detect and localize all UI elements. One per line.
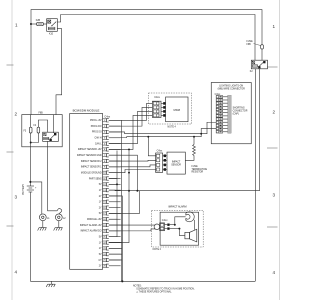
wire module pin 25 stub (109, 259, 123, 261)
wire module pin 13 stub to K2 rail (109, 189, 129, 192)
module pin 3 PROG DI (92, 130, 109, 134)
module pin 15 1Y (99, 200, 109, 204)
wire lamp L1 to ground (42, 221, 44, 228)
wire resistor to sensor S2 (185, 157, 194, 161)
fuse F4 (34, 125, 40, 133)
module pin 11 1Y (89, 177, 109, 181)
wire module pin 1 to sensor S1 pin 1 (109, 103, 153, 120)
left zone tick 1-2 (7, 64, 14, 66)
impact sensor S1 enclosure (148, 93, 191, 124)
ground lamp L2 (54, 228, 63, 231)
right zone tick 2-3 (267, 147, 278, 149)
wire fuse F6B to relay K2 (261, 49, 263, 60)
node CAN bus junction (200, 133, 202, 135)
svg-text:PART SENS: PART SENS (89, 177, 102, 180)
wire alarm pin 2 internal (170, 228, 180, 230)
module pin 20 IMPACT ALARM +5V (81, 229, 109, 233)
svg-text:2: 2 (273, 110, 276, 115)
module pin 9 IMPACT SENSOR 1 (81, 165, 109, 169)
wire module pin 6 to sensor S1 pin 4 (109, 115, 153, 149)
module pin 21 IMPACT ALARM DO (99, 235, 109, 239)
shorting connector pin 7 (216, 115, 227, 118)
connector sensor S2 pin 4 (156, 168, 167, 171)
shorting connector cap label (233, 107, 248, 115)
right margin ruler line (279, 0, 281, 300)
wire module pin 20 to alarm pin 2 (109, 229, 156, 231)
svg-text:CONNECTOR: CONNECTOR (233, 110, 248, 112)
connector sensor S1 pin 2 (153, 106, 165, 109)
shorting connector pin 11 (216, 127, 227, 130)
ground chassis G1 (46, 281, 55, 287)
sensor S1 body MS08 (166, 97, 188, 122)
shorting connector enclosure (211, 83, 251, 144)
wire relay K3 output to lamp 2 (48, 141, 58, 210)
module pin 19 MODULE +5V (80, 223, 109, 227)
wire relay K2 output to module rail (129, 69, 260, 191)
svg-text:2Y: 2Y (99, 266, 102, 268)
horn H1 (186, 212, 194, 222)
shorting connector pin 9 (216, 121, 227, 124)
shorting connector pin numbers (219, 97, 221, 132)
wire lamp L2 to ground (58, 221, 60, 228)
svg-text:1Y: 1Y (99, 202, 102, 204)
shorting connector pin 6 (216, 111, 227, 114)
module pin 8 IMPACT SENSOR 2 (81, 159, 109, 163)
connector sensor S2 shell (156, 153, 163, 172)
connector sensor S1 shell (152, 101, 161, 117)
svg-text:CAN L: CAN L (95, 142, 102, 145)
wire resistor tap (193, 137, 195, 145)
svg-text:C4xx: C4xx (157, 150, 163, 153)
wire module pin 9 to sensor S2 pin 3 (109, 165, 156, 167)
impact alarm inner box (160, 212, 199, 245)
wire sensor return bus A (109, 149, 129, 242)
svg-text:F6B: F6B (39, 113, 44, 115)
module pin 14 PART SENS (99, 194, 109, 198)
module pin 22 5V (99, 241, 109, 245)
fuse block F6B box (22, 113, 62, 147)
svg-text:(WB) WIRE CONNECTOR: (WB) WIRE CONNECTOR (218, 89, 246, 91)
svg-text:1Y: 1Y (99, 248, 102, 250)
module pin 12 MODULE GROUND (99, 183, 109, 187)
svg-text:5V: 5V (99, 254, 102, 256)
resistor R1 label (192, 166, 208, 174)
connector sensor S2 pin 1 (156, 154, 167, 157)
svg-text:RESISTOR: RESISTOR (192, 172, 204, 174)
speaker SP1 (185, 229, 197, 242)
connector alarm plug (154, 223, 170, 231)
module pin 6 IMPACT SENSOR +5V (78, 148, 109, 152)
svg-text:3: 3 (273, 193, 276, 198)
svg-text:(CAP): (CAP) (233, 112, 239, 115)
relay K3 in fuse block (43, 132, 59, 141)
relay K2 (250, 60, 268, 73)
svg-text:PROG DI: PROG DI (92, 132, 102, 134)
module pin 13 5V (99, 188, 109, 192)
wire alarm junction to horn (175, 217, 186, 225)
fuse F6B (261, 45, 264, 49)
svg-text:F2B: F2B (36, 20, 41, 22)
wire module pin 11 to alarm enclosure (109, 151, 117, 237)
left zone tick 3-4 (7, 225, 14, 227)
wire horn to speaker (194, 220, 196, 230)
node battery feed junction (30, 23, 32, 25)
left margin ruler line (11, 0, 13, 300)
node alarm junction 1 (174, 224, 176, 226)
module pin 5 CAN L (95, 142, 109, 146)
wire battery feed through fuse F3 (30, 115, 32, 128)
connector sensor S1 pin 1 (153, 102, 165, 105)
svg-text:IMPACT SENSOR +5V: IMPACT SENSOR +5V (78, 148, 102, 151)
node battery junction (29, 181, 31, 183)
relay K10 (47, 19, 58, 36)
shorting connector pin 8 (216, 118, 227, 121)
svg-text:C4xx: C4xx (154, 96, 160, 99)
svg-text:TERMINATING: TERMINATING (192, 168, 208, 171)
wire module pin 24 stub (109, 253, 123, 255)
wire module pin 17 riser (109, 191, 140, 214)
wire module pin 2 to sensor S1 pin 2 (109, 107, 153, 126)
wire module pin 18 stub to bus A (109, 218, 117, 220)
wire alarm pin 1 internal (170, 224, 175, 226)
shorting bar strip (228, 95, 232, 133)
lamp L1 (39, 214, 50, 221)
shorting connector pin 1 (216, 96, 227, 99)
notes text (133, 285, 195, 293)
svg-text:IMPACT ALARM DO: IMPACT ALARM DO (81, 230, 102, 233)
svg-text:CAN H: CAN H (94, 137, 101, 140)
svg-text:2: 2 (15, 112, 18, 117)
wire module pin 19 to alarm pin 1 (109, 224, 156, 226)
wire fuse F4 branch (31, 133, 39, 143)
wire relay K10 to right rail (57, 15, 255, 61)
module pin 10 5V (81, 171, 109, 175)
collector vertical (121, 120, 123, 281)
shorting connector pin 12 (216, 130, 227, 133)
wire battery to ground bus (29, 195, 31, 281)
svg-text:NOTES:: NOTES: (133, 285, 142, 287)
ground lamp L1 (38, 228, 47, 231)
wire module pin 8 to sensor S2 pin 2 (109, 159, 156, 162)
wire module pin 10 to sensor S2 pin 4 (109, 170, 156, 173)
svg-text:MODULE +5V: MODULE +5V (87, 219, 102, 221)
svg-text:SENSOR: SENSOR (171, 164, 181, 166)
wire module pin stubs to collector (109, 120, 121, 265)
leader line to fuse F6B (254, 44, 261, 46)
lamp L2 (55, 214, 66, 221)
svg-text:SHORTING: SHORTING (233, 107, 245, 109)
svg-text:BCM/SDM MODULE: BCM/SDM MODULE (73, 109, 100, 113)
svg-text:PROG DO: PROG DO (91, 126, 102, 128)
module pin 23 1Y (99, 247, 109, 251)
svg-text:2Y: 2Y (99, 207, 102, 209)
wire CAN H bus to shorting connector (125, 122, 217, 133)
svg-text:1Y: 1Y (99, 190, 102, 192)
left zone tick 2-3 (7, 151, 14, 153)
fuse F3 (24, 127, 33, 133)
battery BT1 (22, 184, 37, 195)
sensor S2 body impact sensor (167, 152, 185, 174)
op module box (restraint module) (70, 109, 103, 270)
svg-text:MODULE GROUND: MODULE GROUND (81, 172, 102, 174)
wire module pin 12 stub (109, 183, 117, 185)
module pin 7 IMPACT SENSOR GND (77, 154, 109, 158)
wire battery junction to lamp 1 (30, 182, 41, 214)
svg-text:IMPACT ALARM +5V: IMPACT ALARM +5V (80, 224, 102, 227)
svg-text:K10: K10 (49, 34, 54, 36)
wire relay K10 lower to fuse block (56, 29, 62, 115)
svg-text:1: 1 (15, 23, 18, 28)
module pin 2 PROG DO (91, 124, 109, 128)
svg-text:BATTERY: BATTERY (22, 184, 25, 195)
node return bus A crossing (128, 172, 130, 174)
module pin 18 1Y (87, 218, 109, 222)
node module ground stub junction (116, 183, 118, 185)
wire bus branch to sensor S2 pin 1 (148, 137, 156, 156)
svg-text:F6B: F6B (247, 44, 252, 46)
svg-text:IMPACT ALARM: IMPACT ALARM (168, 206, 186, 209)
svg-text:5V: 5V (99, 237, 102, 239)
coiled pigtail lamp 2 (57, 208, 62, 214)
svg-text:LIGHTING LIGHTS-ON: LIGHTING LIGHTS-ON (219, 86, 243, 88)
svg-text:4: 4 (273, 270, 276, 275)
svg-text:IMPACT: IMPACT (172, 160, 181, 163)
svg-text:MS08: MS08 (174, 109, 181, 112)
svg-text:FUSE: FUSE (192, 166, 199, 168)
module pin 17 5V (99, 212, 109, 216)
shorting connector pin 10 (216, 124, 227, 127)
connector sensor S2 pin 3 (156, 163, 167, 166)
wire alarm junction 2 to speaker (179, 229, 185, 236)
wire module pin 5 to sensor S1 pin 3 (109, 111, 153, 143)
svg-text:SCHEMATIC REFERS TO TRUCK IN H: SCHEMATIC REFERS TO TRUCK IN HOME POSITI… (136, 287, 195, 290)
svg-text:△ THESE FEATURES OPTIONAL.: △ THESE FEATURES OPTIONAL. (136, 290, 172, 293)
svg-text:4: 4 (15, 270, 18, 275)
wire battery drop (29, 147, 31, 186)
module pin 1 PROG +5V (90, 119, 109, 123)
fuse F2B (37, 22, 44, 25)
ground bus bottom (30, 280, 255, 282)
connector sensor S1 pin 3 (153, 110, 165, 113)
node return bus B bottom (136, 190, 138, 192)
svg-text:NOTE 4: NOTE 4 (168, 126, 177, 128)
module pin 4 CAN H (94, 136, 108, 140)
node alarm junction 2 (178, 228, 180, 230)
shorting connector pin 5 (216, 108, 227, 111)
wire relay K2 to ground bus (254, 69, 256, 281)
svg-text:C4xx: C4xx (104, 115, 110, 118)
wire coil feed into relay K3 (53, 115, 55, 133)
module pin 25 CT (99, 258, 109, 262)
node return bus A top (128, 148, 130, 150)
wire module pin 23 stub (109, 247, 123, 249)
svg-text:IMPACT SENSOR GND: IMPACT SENSOR GND (77, 154, 102, 157)
svg-text:1: 1 (273, 24, 276, 29)
connector sensor S1 pin 4 (153, 114, 165, 117)
node sensor branch junction (147, 136, 149, 138)
wire sensor return bus B (109, 155, 138, 190)
svg-text:3: 3 (15, 195, 18, 200)
wire module pin 22 stub (109, 242, 123, 244)
shorting connector pin 2 (216, 99, 227, 102)
node ground bus module junction (121, 280, 123, 282)
shorting connector pin 4 (216, 105, 227, 108)
right zone tick 1-2 (267, 66, 278, 68)
shorting connector pin 3 (216, 102, 227, 105)
resistor R1 terminating (193, 145, 196, 157)
node return bus A bottom (128, 190, 130, 192)
svg-text:IMPACT SENSOR 2: IMPACT SENSOR 2 (81, 160, 102, 163)
module pin 26 2Y (99, 264, 109, 268)
wire module ground to ground bus (109, 196, 123, 281)
svg-text:C4xx: C4xx (162, 219, 168, 222)
svg-text:5V: 5V (99, 213, 102, 215)
wire top feed bus B+ (31, 10, 262, 115)
module pin 24 5V (99, 252, 109, 256)
connector sensor S2 pin 2 (156, 159, 167, 162)
node resistor tap junction (193, 136, 195, 138)
svg-text:5V: 5V (99, 184, 102, 186)
impact alarm dashed enclosure (152, 210, 204, 247)
svg-text:1Y: 1Y (99, 242, 102, 244)
module pin 16 2Y (99, 206, 109, 210)
wire CAN L bus to shorting connector (127, 129, 217, 137)
svg-text:2Y: 2Y (99, 196, 102, 198)
svg-text:PROG +5V: PROG +5V (90, 120, 102, 122)
node fuse block junction (30, 142, 32, 144)
right zone tick 3-4 (267, 226, 278, 228)
svg-text:IMPACT SENSOR 1: IMPACT SENSOR 1 (81, 166, 102, 169)
svg-text:NOTE 2: NOTE 2 (153, 249, 162, 251)
